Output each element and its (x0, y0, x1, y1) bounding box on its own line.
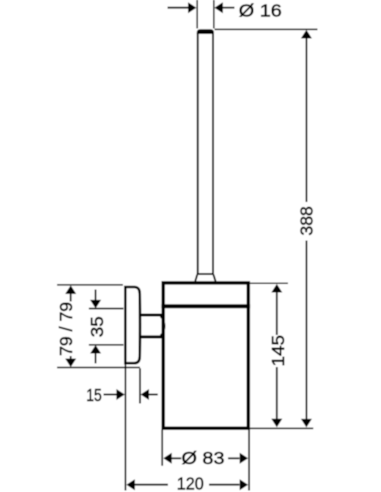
extension line left of Ø83 (161, 430, 163, 466)
dimension line 35 lower tail with arrow (90, 345, 101, 363)
dimension text Ø 83 (182, 448, 225, 468)
extension line right of Ø83 and 120 (248, 430, 250, 491)
dimension text 388 (297, 206, 317, 236)
dimension line 15 left segment (104, 389, 125, 400)
dimension text Ø 16 (239, 1, 282, 21)
dimension line 120 right arrow (209, 479, 248, 490)
brush handle rod right wall (212, 33, 214, 274)
plate front extension line (139, 368, 141, 403)
dimension line 120 left arrow (126, 479, 167, 490)
dimension line Ø83 right arrow (228, 453, 248, 464)
dimension line 145 upper segment (271, 284, 282, 335)
brush handle top cap (197, 29, 214, 34)
holder rim line (161, 304, 250, 308)
extension line bottom of 79/79 (57, 367, 140, 369)
svg-text:120: 120 (177, 474, 204, 492)
dimension text 79 / 79 (56, 302, 76, 356)
wall reference extension line (124, 365, 126, 491)
extension line from holder top for 145 (250, 282, 288, 284)
extension line right of Ø16 (213, 0, 215, 29)
extension line left of Ø16 (196, 0, 198, 29)
svg-text:388: 388 (297, 206, 317, 236)
dimension line 15 right segment (141, 389, 158, 400)
support arm bottom edge (140, 335, 164, 338)
dimension line Ø16 right segment (214, 2, 234, 13)
dimension text 35 (87, 316, 107, 337)
dimension line 388 upper segment (301, 30, 312, 202)
dimension line Ø83 left arrow (163, 453, 181, 464)
extension line bottom of 35 (89, 344, 124, 346)
dimension line 79/79 upper segment (65, 285, 76, 301)
shared bottom extension line (250, 427, 313, 429)
dimension text 15 (86, 385, 102, 405)
dimension line Ø16 left segment (168, 2, 197, 13)
dimension line 145 lower segment (271, 367, 282, 427)
svg-text:Ø 83: Ø 83 (182, 448, 225, 468)
extension line right of rod top for 388 (215, 28, 318, 30)
extension line top of 35 (89, 308, 124, 310)
dimension text 145 (268, 335, 288, 367)
svg-text:145: 145 (268, 335, 288, 367)
svg-text:79 / 79: 79 / 79 (56, 302, 76, 356)
rod flare at holder entry (195, 274, 215, 281)
extension line top of 79/79 (57, 284, 123, 286)
svg-text:35: 35 (87, 316, 107, 337)
dimension text 120 (177, 474, 204, 492)
support arm top edge (140, 313, 164, 316)
holder container body (163, 283, 248, 428)
dimension line 35 upper tail with arrow (90, 290, 101, 309)
svg-text:Ø 16: Ø 16 (239, 1, 282, 21)
support arm rounded end cap (161, 316, 165, 335)
dimension line 388 lower segment (301, 241, 312, 428)
brush handle rod left wall (197, 33, 199, 274)
wall mounting plate (125, 287, 140, 363)
dimension line 79/79 lower segment (65, 356, 76, 367)
svg-text:15: 15 (86, 385, 102, 405)
